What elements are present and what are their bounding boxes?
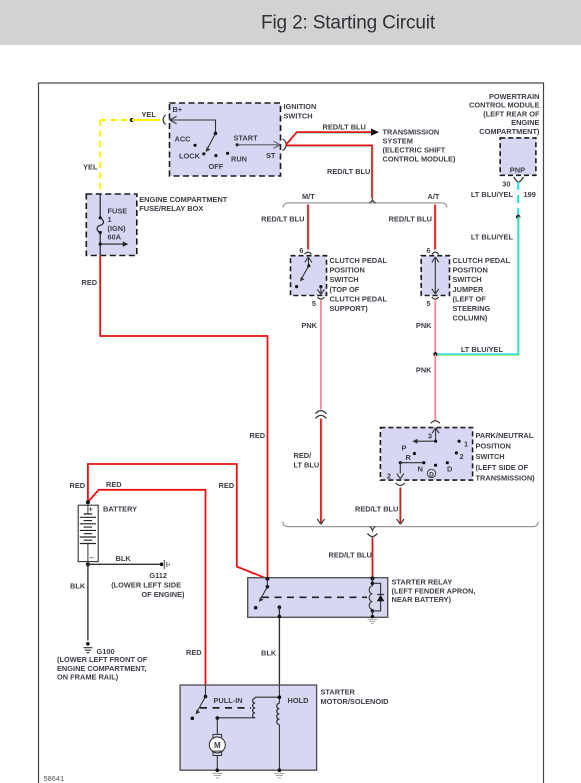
svg-text:D: D bbox=[429, 471, 434, 478]
wire PNK junction to PNP switch pin 3 bbox=[434, 354, 436, 421]
pin 30 connector PCM bbox=[514, 177, 524, 182]
svg-text:JUMPER: JUMPER bbox=[453, 285, 484, 294]
svg-text:(IGN): (IGN) bbox=[108, 224, 127, 233]
svg-text:LT BLU/YEL: LT BLU/YEL bbox=[471, 190, 514, 199]
wire fuse output with branch arrow bbox=[99, 233, 101, 256]
svg-text:A/T: A/T bbox=[428, 192, 440, 201]
node PNP N contact bbox=[422, 461, 425, 464]
pin B+ arrow and feed line bbox=[170, 116, 177, 123]
diode CR1 across relay coil bbox=[372, 583, 380, 611]
wire motor to ground bbox=[216, 756, 218, 771]
svg-text:RED: RED bbox=[70, 481, 86, 490]
solenoid switch arm bbox=[197, 697, 205, 711]
svg-text:CLUTCH PEDAL: CLUTCH PEDAL bbox=[330, 294, 388, 303]
wire RED battery to solenoid bbox=[88, 490, 206, 685]
svg-text:Fig 2: Starting Circuit: Fig 2: Starting Circuit bbox=[261, 13, 436, 34]
node PNP 1 contact bbox=[458, 440, 461, 443]
inline connector on M/T wire bbox=[315, 411, 326, 419]
svg-text:RED: RED bbox=[186, 648, 202, 657]
svg-text:60A: 60A bbox=[108, 233, 122, 242]
svg-text:P: P bbox=[402, 444, 407, 453]
svg-text:CONTROL MODULE): CONTROL MODULE) bbox=[383, 155, 456, 164]
node solenoid switch contact bbox=[191, 717, 195, 721]
svg-text:(LEFT OF: (LEFT OF bbox=[453, 294, 487, 303]
svg-text:BATTERY: BATTERY bbox=[103, 505, 137, 514]
svg-text:LT BLU/YEL: LT BLU/YEL bbox=[461, 345, 504, 354]
wire YEL horizontal dashed (corner to splice) bbox=[100, 119, 131, 121]
node solenoid BLK entry bbox=[278, 685, 280, 703]
svg-text:3: 3 bbox=[428, 432, 432, 441]
svg-text:STARTER: STARTER bbox=[321, 688, 356, 697]
node relay input terminal bbox=[265, 577, 269, 581]
circled D (overdrive) bbox=[427, 469, 435, 477]
wire relay coil to case ground bbox=[371, 611, 373, 617]
svg-text:(TOP OF: (TOP OF bbox=[330, 285, 360, 294]
svg-text:FUSE/RELAY BOX: FUSE/RELAY BOX bbox=[139, 204, 203, 213]
svg-text:6: 6 bbox=[426, 246, 430, 255]
starter motor/solenoid box bbox=[180, 685, 317, 770]
ground G100 bbox=[86, 642, 90, 646]
svg-text:FUSE: FUSE bbox=[108, 207, 128, 216]
node junction PNK / LT BLU-YEL bbox=[433, 352, 437, 356]
svg-text:BLK: BLK bbox=[261, 649, 277, 658]
wire LT BLU/YEL solid down and left to PNK junction bbox=[436, 217, 519, 356]
node PNP D contact bbox=[446, 461, 449, 464]
node PNP corner under pin3 bbox=[434, 440, 437, 443]
svg-text:R: R bbox=[406, 453, 412, 462]
relay linkage dashed bbox=[262, 596, 367, 598]
bus brace to starter relay bbox=[283, 522, 539, 527]
svg-text:PARK/NEUTRAL: PARK/NEUTRAL bbox=[476, 431, 534, 440]
svg-text:(ELECTRIC SHIFT: (ELECTRIC SHIFT bbox=[383, 146, 446, 155]
svg-text:MOTOR/SOLENOID: MOTOR/SOLENOID bbox=[321, 697, 390, 706]
svg-text:BLK: BLK bbox=[116, 554, 132, 563]
solenoid linkage dashed bbox=[200, 707, 251, 709]
node relay coil bottom bbox=[371, 609, 375, 613]
arrow to transmission system bbox=[371, 129, 379, 136]
frame border bbox=[39, 83, 544, 783]
ignition wiper arm (to LOCK) bbox=[207, 133, 215, 149]
svg-text:ST: ST bbox=[266, 151, 276, 160]
svg-text:HOLD: HOLD bbox=[288, 696, 310, 705]
svg-text:1: 1 bbox=[464, 440, 468, 449]
hold coil bbox=[277, 703, 280, 724]
node RUN contact bbox=[226, 152, 229, 155]
clutch pedal position switch jumper box bbox=[421, 256, 449, 296]
ground at hold coil bbox=[274, 773, 284, 778]
node relay output contact bbox=[278, 605, 282, 609]
wire RED fuse box to starter relay bbox=[100, 256, 267, 578]
svg-text:LT BLU/YEL: LT BLU/YEL bbox=[471, 233, 514, 242]
PNP R leg: corner to N and down to pin 2 bbox=[399, 461, 402, 464]
jumper through-wire with arrows bbox=[434, 258, 436, 294]
svg-text:COLUMN): COLUMN) bbox=[453, 314, 488, 323]
engine compartment fuse/relay box bbox=[86, 194, 137, 256]
svg-text:(LEFT FENDER APRON,: (LEFT FENDER APRON, bbox=[392, 586, 476, 595]
svg-text:STEERING: STEERING bbox=[453, 304, 491, 313]
svg-text:RED/LT BLU: RED/LT BLU bbox=[327, 167, 370, 176]
ground G112 bbox=[160, 563, 164, 567]
svg-text:POSITION: POSITION bbox=[330, 266, 365, 275]
brace M/T - A/T split bbox=[283, 203, 447, 208]
svg-text:PNK: PNK bbox=[416, 321, 432, 330]
park/neutral position switch box bbox=[380, 428, 472, 481]
svg-text:SYSTEM: SYSTEM bbox=[383, 137, 413, 146]
pin 2 connector PNP switch bbox=[396, 483, 405, 486]
svg-text:TRANSMISSION: TRANSMISSION bbox=[383, 128, 440, 137]
svg-text:RED: RED bbox=[106, 480, 122, 489]
node splice on YEL wire bbox=[130, 118, 134, 122]
svg-text:(LEFT SIDE OF: (LEFT SIDE OF bbox=[476, 463, 529, 472]
svg-text:RED: RED bbox=[250, 431, 266, 440]
svg-text:IGNITION: IGNITION bbox=[284, 102, 317, 111]
svg-text:5: 5 bbox=[312, 299, 316, 308]
ground at motor bbox=[212, 773, 222, 778]
wire RED/LT BLU ignition to M/T A/T brace bbox=[287, 147, 374, 199]
svg-text:PNK: PNK bbox=[301, 321, 317, 330]
svg-text:CLUTCH PEDAL: CLUTCH PEDAL bbox=[453, 256, 511, 265]
svg-text:ENGINE: ENGINE bbox=[511, 118, 539, 127]
svg-text:N: N bbox=[418, 465, 423, 474]
wire PNK from clutch switch pin 5 (M/T) bbox=[320, 300, 322, 409]
wire PNK from jumper pin 5 (A/T) bbox=[434, 300, 436, 354]
wire pull-in coil bottom to motor bbox=[217, 717, 255, 719]
svg-text:+: + bbox=[89, 505, 94, 514]
node splice on LT BLU/YEL bbox=[516, 215, 520, 219]
svg-text:SWITCH: SWITCH bbox=[330, 275, 359, 284]
node relay coil top terminal bbox=[370, 577, 374, 581]
svg-text:M/T: M/T bbox=[302, 192, 315, 201]
svg-text:SWITCH: SWITCH bbox=[284, 112, 313, 121]
node LOCK contact bbox=[202, 152, 205, 155]
svg-text:199: 199 bbox=[524, 190, 536, 199]
node battery negative terminal bbox=[86, 562, 90, 566]
starter motor M bbox=[213, 734, 222, 738]
svg-text:POSITION: POSITION bbox=[453, 266, 488, 275]
svg-text:B+: B+ bbox=[173, 105, 183, 114]
wire hold coil to ground bbox=[278, 725, 280, 771]
ignition switch box bbox=[170, 103, 281, 176]
wire RED/LT BLU M/T drop bbox=[308, 205, 310, 250]
pin 6 connector clutch pedal position switch bbox=[305, 252, 312, 254]
wire START to ST pin bbox=[237, 144, 280, 146]
pin 5 connector clutch jumper bbox=[432, 297, 439, 299]
svg-text:G112: G112 bbox=[149, 571, 167, 580]
svg-text:RED: RED bbox=[219, 481, 235, 490]
powertrain control module box bbox=[500, 138, 536, 175]
svg-text:CLUTCH PEDAL: CLUTCH PEDAL bbox=[330, 256, 388, 265]
fuse F1 IGN 60A bbox=[99, 216, 102, 219]
node ignition wiper pivot bbox=[214, 132, 218, 136]
node PNP 2 contact bbox=[455, 451, 458, 454]
title band bbox=[0, 0, 581, 45]
wire RED battery to relay branch bbox=[88, 464, 268, 579]
node clutch switch pivot bbox=[307, 264, 310, 267]
wire RED/LT BLU PNP pin2 to bus bbox=[401, 488, 403, 524]
svg-text:RED/LT BLU: RED/LT BLU bbox=[323, 123, 366, 132]
node START contact bbox=[236, 143, 239, 146]
relay coil bbox=[369, 586, 372, 609]
svg-text:6: 6 bbox=[299, 246, 303, 255]
svg-text:ENGINE COMPARTMENT: ENGINE COMPARTMENT bbox=[139, 195, 228, 204]
svg-text:30: 30 bbox=[502, 180, 510, 189]
svg-text:POSITION: POSITION bbox=[476, 442, 511, 451]
svg-text:SWITCH: SWITCH bbox=[476, 452, 505, 461]
connector ( at ignition B+ bbox=[163, 115, 166, 124]
svg-text:SWITCH: SWITCH bbox=[453, 275, 482, 284]
connector under bus center bbox=[367, 534, 377, 537]
svg-text:RED/LT BLU: RED/LT BLU bbox=[355, 505, 398, 514]
svg-text:PNK: PNK bbox=[416, 366, 432, 375]
node clutch switch pin5 contact bbox=[319, 285, 322, 288]
svg-text:CONTROL MODULE: CONTROL MODULE bbox=[469, 101, 540, 110]
pin 6 connector clutch jumper bbox=[432, 252, 439, 254]
wire fuse input bbox=[99, 194, 101, 218]
PNP pin3 entry arrow and wiper bbox=[432, 428, 439, 441]
svg-text:PNP: PNP bbox=[510, 166, 525, 175]
svg-text:YEL: YEL bbox=[142, 110, 157, 119]
svg-text:YEL: YEL bbox=[83, 163, 98, 172]
starter relay box bbox=[248, 578, 388, 618]
node relay switch pivot bbox=[266, 585, 270, 589]
wire pull-in coil top to hold line bbox=[255, 697, 279, 698]
pin 5 connector clutch switch bbox=[318, 297, 325, 299]
svg-text:(LOWER LEFT SIDE: (LOWER LEFT SIDE bbox=[111, 581, 181, 590]
connector ) at ignition ST bbox=[283, 139, 287, 151]
wire RED/LT BLU bus to starter relay bbox=[373, 538, 375, 578]
PNP wiper arm pointing left bbox=[417, 440, 436, 442]
wire RED/LT BLU from connector to bus bbox=[321, 419, 323, 524]
ground at relay bbox=[368, 619, 378, 623]
wire RED/LT BLU ignition to transmission system bbox=[287, 133, 371, 145]
node ACC contact bbox=[193, 144, 196, 147]
svg-text:COMPARTMENT): COMPARTMENT) bbox=[479, 127, 540, 136]
svg-text:ON FRAME RAIL): ON FRAME RAIL) bbox=[57, 672, 119, 681]
svg-text:2: 2 bbox=[460, 452, 464, 461]
svg-text:SUPPORT): SUPPORT) bbox=[330, 304, 369, 313]
svg-text:PULL-IN: PULL-IN bbox=[214, 696, 243, 705]
svg-text:(LOWER LEFT FRONT OF: (LOWER LEFT FRONT OF bbox=[57, 655, 148, 664]
svg-text:LT BLU: LT BLU bbox=[294, 461, 320, 470]
arrow into bus (M/T) bbox=[317, 519, 324, 524]
wire YEL solid (splice to ignition connector) bbox=[132, 119, 160, 121]
battery bbox=[86, 500, 90, 504]
svg-text:TRANSMISSION): TRANSMISSION) bbox=[476, 473, 536, 482]
wire LT BLU/YEL dashed from PCM pin 30 bbox=[517, 182, 519, 217]
svg-text:RED/LT BLU: RED/LT BLU bbox=[329, 551, 372, 560]
svg-text:RED/: RED/ bbox=[294, 451, 312, 460]
svg-text:RED/LT BLU: RED/LT BLU bbox=[261, 215, 304, 224]
node clutch switch lower-left contact bbox=[295, 285, 298, 288]
svg-text:STARTER RELAY: STARTER RELAY bbox=[392, 578, 453, 587]
clutch switch pin5 exit arrow bbox=[317, 287, 324, 294]
solenoid switch input bbox=[205, 685, 207, 697]
wire RED/LT BLU A/T drop bbox=[435, 205, 437, 250]
node OFF contact bbox=[214, 154, 217, 157]
svg-text:LOCK: LOCK bbox=[179, 152, 201, 161]
node PNP P contact bbox=[413, 452, 416, 455]
wire BLK battery to G100 bbox=[87, 564, 89, 640]
svg-text:5: 5 bbox=[426, 299, 430, 308]
svg-text:OF ENGINE): OF ENGINE) bbox=[141, 590, 185, 599]
svg-text:START: START bbox=[234, 134, 259, 143]
node relay lower-left contact bbox=[254, 606, 258, 610]
svg-text:RED/LT BLU: RED/LT BLU bbox=[389, 215, 432, 224]
svg-text:ACC: ACC bbox=[175, 135, 192, 144]
svg-text:–: – bbox=[90, 553, 94, 562]
svg-text:POWERTRAIN: POWERTRAIN bbox=[489, 92, 540, 101]
svg-text:NEAR BATTERY): NEAR BATTERY) bbox=[392, 595, 452, 604]
wire BLK battery to G112 bbox=[88, 563, 161, 565]
wire BLK relay to solenoid bbox=[278, 607, 280, 685]
clutch pedal position switch box bbox=[291, 256, 327, 296]
pin 3 connector PNP switch bbox=[431, 421, 440, 424]
svg-text:RED: RED bbox=[82, 278, 98, 287]
svg-text:RUN: RUN bbox=[231, 155, 247, 164]
svg-text:(LEFT REAR OF: (LEFT REAR OF bbox=[483, 109, 540, 118]
svg-text:58641: 58641 bbox=[44, 774, 65, 783]
svg-text:1: 1 bbox=[108, 215, 112, 224]
pull-in coil bbox=[253, 698, 255, 718]
svg-text:OFF: OFF bbox=[209, 162, 224, 171]
relay switch arm bbox=[261, 587, 268, 599]
arrow into bus (PNP) bbox=[397, 519, 404, 524]
wire YEL vertical (fuse box to corner) bbox=[99, 120, 101, 194]
node PNP contact above D-circle bbox=[434, 464, 437, 467]
svg-text:BLK: BLK bbox=[70, 582, 86, 591]
clutch switch wiper arm bbox=[302, 266, 309, 279]
svg-text:2: 2 bbox=[387, 472, 391, 481]
clutch switch pin6 entry arrow bbox=[305, 257, 312, 266]
svg-text:D: D bbox=[447, 465, 453, 474]
svg-text:M: M bbox=[214, 741, 221, 750]
